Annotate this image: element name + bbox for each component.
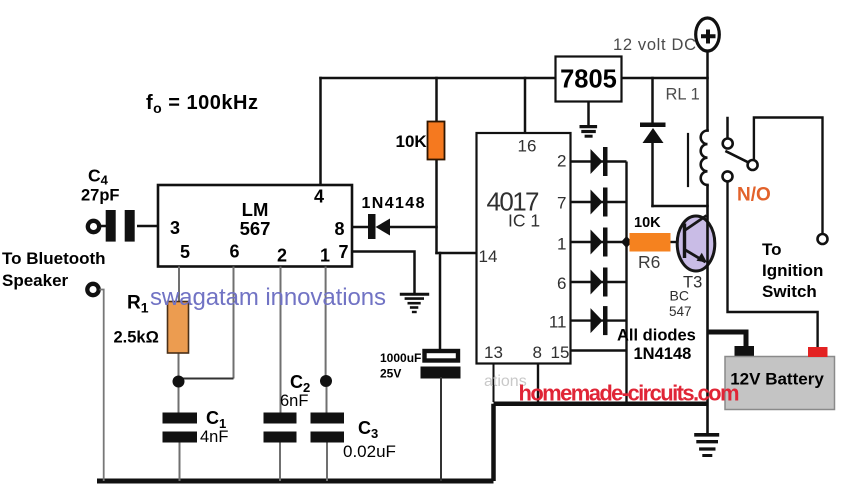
- svg-text:25V: 25V: [380, 367, 401, 381]
- svg-text:6: 6: [230, 242, 240, 262]
- svg-text:15: 15: [551, 343, 570, 362]
- svg-text:7: 7: [339, 242, 349, 262]
- svg-text:5: 5: [180, 242, 190, 262]
- svg-text:To Bluetooth: To Bluetooth: [2, 249, 106, 268]
- svg-text:6nF: 6nF: [280, 392, 308, 410]
- svg-text:1N4148: 1N4148: [634, 345, 692, 363]
- svg-text:10K: 10K: [634, 215, 661, 231]
- svg-text:6: 6: [557, 274, 566, 293]
- svg-text:R6: R6: [638, 252, 660, 272]
- svg-text:To: To: [762, 240, 782, 259]
- svg-text:1N4148: 1N4148: [362, 195, 425, 212]
- svg-text:10K: 10K: [396, 132, 428, 151]
- svg-text:2: 2: [557, 152, 566, 171]
- svg-text:2.5kΩ: 2.5kΩ: [114, 329, 159, 347]
- svg-text:8: 8: [335, 219, 345, 239]
- svg-text:14: 14: [479, 247, 498, 266]
- svg-text:N/O: N/O: [737, 185, 771, 206]
- svg-text:Speaker: Speaker: [2, 271, 69, 290]
- svg-text:3: 3: [170, 218, 180, 238]
- svg-text:16: 16: [518, 137, 537, 156]
- svg-text:27pF: 27pF: [81, 187, 120, 205]
- svg-text:BC: BC: [670, 288, 689, 304]
- svg-text:2: 2: [277, 246, 287, 266]
- svg-text:547: 547: [669, 304, 692, 319]
- svg-text:7805: 7805: [560, 66, 617, 94]
- svg-text:Ignition: Ignition: [762, 261, 823, 280]
- svg-text:4nF: 4nF: [200, 428, 228, 446]
- svg-text:LM: LM: [242, 199, 269, 220]
- svg-text:1000uF: 1000uF: [380, 351, 421, 365]
- svg-text:13: 13: [484, 343, 503, 362]
- svg-text:0.02uF: 0.02uF: [343, 442, 396, 461]
- svg-text:All diodes: All diodes: [617, 327, 696, 345]
- svg-text:Switch: Switch: [762, 282, 817, 301]
- svg-text:4: 4: [314, 187, 324, 207]
- svg-text:homemade-circuits.com: homemade-circuits.com: [519, 381, 740, 406]
- svg-text:fo = 100kHz: fo = 100kHz: [146, 92, 258, 116]
- svg-text:1: 1: [320, 246, 330, 266]
- svg-text:12 volt DC: 12 volt DC: [613, 36, 696, 54]
- svg-text:IC 1: IC 1: [508, 211, 540, 231]
- svg-text:11: 11: [549, 313, 567, 332]
- svg-text:1: 1: [557, 235, 566, 254]
- svg-text:RL 1: RL 1: [666, 86, 700, 104]
- svg-text:12V Battery: 12V Battery: [730, 370, 824, 389]
- svg-text:567: 567: [240, 218, 271, 239]
- svg-text:swagatam innovations: swagatam innovations: [150, 284, 386, 311]
- svg-text:8: 8: [533, 343, 542, 362]
- svg-text:7: 7: [557, 194, 566, 213]
